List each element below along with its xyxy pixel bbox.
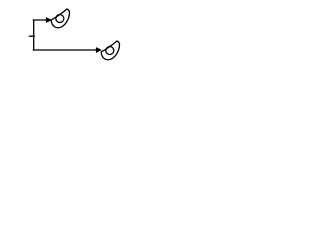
stub tick on trunk — [29, 35, 34, 37]
whistle W2 (teardrop outline with inner circle) — [101, 41, 119, 60]
arrowhead to whistle 2 — [96, 48, 101, 53]
wire top branch — [33, 19, 46, 21]
wire bottom branch — [33, 49, 96, 51]
whistle W1 (teardrop outline with inner circle) — [51, 9, 69, 28]
wire vertical trunk — [33, 20, 35, 50]
arrowhead to whistle 1 — [46, 18, 51, 23]
